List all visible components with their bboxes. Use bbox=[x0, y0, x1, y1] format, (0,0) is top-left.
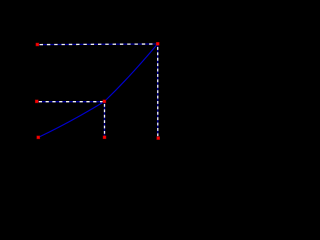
wire: top horizontal guide blue underlay from M1 to M2 bbox=[37, 43, 157, 46]
curve: blue transformation curve from origin through knee to top point bbox=[38, 44, 157, 138]
wire: middle vertical guide blue underlay from M4 to M6 bbox=[104, 102, 106, 138]
node M6: bottom-middle marker bbox=[103, 136, 106, 139]
node M5: origin marker bbox=[37, 136, 40, 139]
wire: right vertical guide white dashes bbox=[157, 47, 159, 138]
wire: middle horizontal guide white dashes bbox=[39, 101, 105, 103]
node M1: top-left marker bbox=[36, 43, 39, 46]
node M2: top-right marker bbox=[156, 42, 159, 45]
wire: right vertical guide blue underlay from M2 to M7 bbox=[157, 44, 159, 138]
node M7: bottom-right marker bbox=[157, 137, 160, 140]
node M3: middle-left marker bbox=[35, 100, 38, 103]
wire: top horizontal guide white dashes bbox=[40, 43, 158, 46]
wire: middle vertical guide white dashes bbox=[104, 104, 106, 137]
node M4: knee marker on curve bbox=[103, 100, 106, 103]
wire: middle horizontal guide blue underlay from M3 to M4 bbox=[37, 101, 105, 103]
